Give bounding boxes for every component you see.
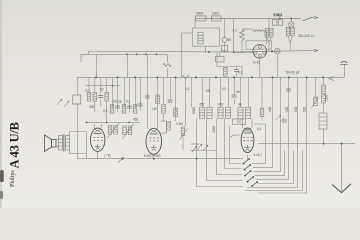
- svg-text:50: 50: [228, 38, 232, 42]
- wire vertical x224.5 top: [224, 19, 226, 53]
- antenna symbol: [340, 61, 347, 64]
- wire lamp leads top right: [290, 18, 292, 21]
- wire vertical x135 drop: [135, 77, 137, 108]
- wire vertical x157 tube2 feed: [157, 77, 159, 128]
- rotary switch wiper 2: [245, 165, 251, 170]
- svg-text:10: 10: [222, 87, 226, 91]
- wire dropper top to bump coil: [242, 28, 253, 30]
- wire transformer bottom lead: [69, 150, 86, 154]
- capacitor box pair on mains line b: [278, 20, 283, 26]
- wire vertical x96: [96, 54, 98, 77]
- wire nested right 3: [254, 77, 281, 171]
- tube V3 anode: [244, 132, 252, 134]
- wire transformer top lead: [69, 132, 86, 136]
- resistor R c: [105, 93, 109, 102]
- tube V1 top cross: [94, 129, 101, 133]
- wire tube2 cathode drop: [153, 154, 155, 159]
- wire vertical x233.7: [233, 19, 235, 53]
- transformer core lines: [62, 134, 65, 152]
- diag arrows right of tube3: [276, 115, 285, 122]
- rotary switch wiper 3: [245, 171, 251, 176]
- tube V1 leads: [94, 124, 101, 128]
- svg-text:( 78): ( 78): [104, 154, 111, 158]
- wire vertical x175.5 drop: [175, 77, 177, 121]
- rectifier pin top: [258, 45, 261, 48]
- trimmer cap pair 1: [108, 126, 112, 135]
- aerial terminal arrow 1: [57, 99, 62, 105]
- wire speaker vertical join: [86, 132, 88, 159]
- gram input arrow 1: [192, 146, 197, 152]
- rectifier pin bottom: [258, 54, 261, 57]
- antenna lead: [344, 65, 346, 78]
- rectifier pin left: [254, 51, 257, 54]
- wire bump coil to rectifier: [264, 32, 267, 45]
- svg-text:E 43: E 43: [254, 61, 261, 65]
- IF coil box 2b: [225, 107, 230, 118]
- wire vertical x163.5 drop: [163, 77, 165, 121]
- wire vertical x89 drop: [88, 77, 90, 92]
- capacitor above tube2: [145, 96, 150, 98]
- capacitor C d: [138, 104, 143, 106]
- wire gram horizontal: [190, 150, 216, 152]
- tube V1 grid2: [93, 140, 103, 142]
- wire vertical x112 drop: [112, 77, 114, 108]
- wire res above bus lead: [224, 67, 226, 78]
- wire vertical x170 drop: [170, 77, 172, 100]
- svg-text:1000: 1000: [212, 12, 219, 16]
- svg-text:220-240 V∼: 220-240 V∼: [298, 34, 316, 38]
- wire nested right 4: [255, 150, 285, 175]
- tube V2 anode: [150, 133, 158, 135]
- earth arrow chevron: [332, 184, 351, 193]
- wire vertical x127: [127, 54, 129, 77]
- svg-text:1W: 1W: [152, 107, 157, 111]
- wire mains lower line: [89, 50, 316, 52]
- svg-text:500: 500: [303, 106, 307, 112]
- svg-text:5000: 5000: [196, 12, 203, 16]
- potentiometer right x315: [314, 97, 318, 106]
- resistor R top1 on mains line: [196, 16, 207, 21]
- electrolytic hatch: [319, 117, 327, 125]
- pilot lamp small circle: [222, 37, 227, 42]
- volume potentiometer: [181, 127, 185, 136]
- capacitor on drop x288.5: [286, 89, 291, 91]
- small trimmer box b: [240, 119, 246, 125]
- wire vertical x167 with osc coil: [167, 54, 169, 77]
- wire heater line B: [81, 53, 167, 55]
- output transformer secondary coil: [66, 136, 70, 151]
- wire vertical x248 IF feed: [248, 77, 250, 107]
- tube V1 heater: [96, 148, 100, 150]
- wire loop rectangle top-centre: [192, 28, 219, 46]
- wire rect top feed: [194, 19, 196, 29]
- left scan edge shadow: [0, 0, 2, 208]
- scale lamp circle top right: [289, 22, 294, 27]
- tube V3 grid: [243, 137, 253, 139]
- wire vertical x238 cap drop: [234, 77, 236, 104]
- tube V1 envelope: [91, 128, 105, 151]
- capacitor C c: [127, 106, 132, 108]
- wire dial lamp drop: [276, 54, 278, 77]
- resistor right of IF boxes: [260, 108, 264, 117]
- aerial input box: [73, 95, 81, 104]
- loudspeaker driver: [52, 140, 57, 148]
- wire nested right 7: [247, 77, 298, 187]
- svg-text:46: 46: [238, 103, 242, 107]
- rectifier pin right: [263, 51, 266, 54]
- resistor R d: [110, 105, 114, 114]
- tube V1 anode: [94, 133, 102, 135]
- wire tube1 cathode drop: [97, 152, 99, 159]
- svg-text:0,1: 0,1: [126, 100, 131, 104]
- dial lamp on mains lower: [275, 48, 281, 54]
- heater box around rectifier: [246, 41, 272, 49]
- tube V2 grid2: [149, 140, 159, 142]
- output transformer primary coil: [59, 136, 63, 151]
- wire nested right 6: [257, 150, 294, 184]
- wire resistor lead: [261, 77, 263, 121]
- wire mains top line: [195, 18, 301, 20]
- resistor above tube2: [156, 95, 160, 104]
- wire secondary rail: [86, 85, 120, 87]
- wire res1 leads: [288, 36, 290, 43]
- wire vertical x140 drop: [140, 77, 142, 110]
- coil inside loop: [198, 33, 203, 44]
- wire nested right 5: [256, 77, 289, 179]
- wire vertical rect to mains lower: [205, 46, 207, 53]
- wire nested right 9: [258, 77, 307, 193]
- tube V1 grid: [93, 137, 103, 139]
- wire heater line B left drop: [81, 51, 89, 62]
- wire nested right 2: [253, 77, 273, 167]
- svg-text:E452T+463: E452T+463: [144, 154, 161, 158]
- cathode line arrow: [118, 158, 124, 163]
- svg-text:Philips: Philips: [10, 170, 16, 187]
- wire tube3 cathode drop: [247, 155, 249, 161]
- small box below mains lower: [216, 57, 225, 63]
- wire vertical x269 upper: [267, 19, 272, 51]
- wire vertical x117.5 drop: [117, 77, 119, 112]
- tube V2 heater: [152, 149, 156, 151]
- svg-text:452: 452: [218, 103, 224, 107]
- capacitor C e: [168, 100, 173, 102]
- IF coil box 3b: [245, 107, 250, 118]
- svg-text:0,1: 0,1: [257, 127, 262, 131]
- wire vertical x94.8 drop: [94, 77, 96, 112]
- wire AVC rail: [87, 121, 141, 123]
- svg-text:5000: 5000: [192, 107, 196, 114]
- wire rectifier cathode drop: [259, 58, 261, 77]
- capacitor box pair on mains line a: [272, 20, 277, 26]
- wire vertical x202 IF feed: [202, 77, 204, 107]
- small trimmer box a: [233, 119, 239, 125]
- bump coil on bus left: [182, 76, 189, 79]
- wire tube3 anode to right: [254, 124, 266, 150]
- dial lamp cross: [275, 49, 279, 53]
- capacitor above bus 2: [234, 70, 239, 72]
- svg-text:452: 452: [199, 103, 205, 107]
- tube V2 grid: [149, 137, 159, 139]
- svg-text:400: 400: [268, 106, 272, 112]
- wire vertical x220.5 IF feed: [220, 77, 222, 107]
- speaker frame box: [56, 140, 59, 147]
- svg-text:0,1: 0,1: [238, 71, 243, 75]
- loudspeaker cone: [45, 135, 52, 152]
- heater bump coil: [253, 30, 264, 32]
- mains plug arrow top: [314, 16, 318, 19]
- mains switch blade: [303, 17, 312, 21]
- wire dropper to mains lower: [241, 44, 243, 53]
- resistor pair left a: [265, 29, 269, 38]
- wire cap above bus leads: [236, 67, 238, 78]
- svg-text:A 43 U/B: A 43 U/B: [8, 122, 22, 168]
- wire mains lower through rectifier: [235, 52, 253, 54]
- capacitor right on drop: [282, 120, 287, 122]
- wire tube3 grid feed: [242, 119, 244, 128]
- tube V3 grid side lead: [231, 135, 240, 137]
- resistor R i: [167, 122, 171, 131]
- capacitor C above bus 1: [217, 53, 242, 78]
- wire right resistor chain drop: [323, 77, 325, 143]
- resistor vertical top right 2: [291, 27, 295, 36]
- resistor R b: [93, 93, 97, 102]
- resistor R a: [87, 93, 91, 102]
- svg-text:0,5: 0,5: [103, 109, 108, 113]
- wire switch drop x196: [197, 119, 244, 187]
- scan blotch left edge: [0, 170, 4, 182]
- rectifier tube E43 top view: [253, 45, 267, 59]
- tube V3 top cross: [244, 128, 251, 132]
- wire cathode line y158: [78, 158, 244, 160]
- wire nested right 1: [252, 150, 266, 163]
- wire vertical x185.5 drop: [185, 77, 187, 126]
- svg-text:500: 500: [294, 106, 298, 112]
- svg-text:25: 25: [118, 100, 122, 104]
- wire loop left route: [182, 33, 193, 77]
- grid cap bracket: [161, 121, 167, 133]
- gram input arrow 2: [191, 143, 199, 145]
- svg-text:50: 50: [237, 90, 241, 94]
- svg-text:7500: 7500: [325, 95, 329, 102]
- wire small box lead: [219, 53, 221, 57]
- svg-text:4 x0,1: 4 x0,1: [254, 153, 263, 157]
- resistor R h: [174, 108, 178, 117]
- trimmer cap pair 1b: [114, 126, 118, 135]
- wire main HT bus: [77, 76, 344, 78]
- wire vertical x106.7 drop: [106, 77, 108, 122]
- capacitor C a: [98, 96, 103, 98]
- tube V3 heater: [246, 149, 250, 151]
- svg-text:25: 25: [206, 89, 210, 93]
- svg-text:2 x0,1: 2 x0,1: [274, 13, 283, 17]
- IF coil box 1a: [199, 107, 204, 118]
- resistor R e: [122, 105, 126, 114]
- rotary switch wiper 1: [244, 159, 250, 164]
- potentiometer wiper arrow: [180, 129, 188, 141]
- tube V2 envelope: [146, 128, 162, 154]
- wire vertical x147 tube2 feed: [147, 77, 149, 128]
- svg-text:350: 350: [285, 106, 289, 112]
- wire vertical x209.5 IF feed: [209, 77, 211, 107]
- wire vertical x191 drop: [191, 77, 193, 107]
- small box under pilot: [222, 46, 228, 52]
- osc coil squiggle: [163, 64, 171, 67]
- resistor chain right 7500: [322, 85, 326, 94]
- mains plug arrow lower: [314, 49, 318, 52]
- svg-text:2000: 2000: [212, 126, 216, 133]
- capacitor C 50pF: [232, 95, 237, 97]
- resistor vertical top right 1: [286, 27, 290, 36]
- wire vertical x147: [147, 54, 149, 77]
- svg-text:50+50 µF: 50+50 µF: [286, 71, 300, 75]
- tube V3 envelope: [241, 128, 254, 153]
- title text Philips: [10, 170, 16, 187]
- rotary switch wiper 5: [252, 182, 257, 186]
- trimmer arrow 1: [108, 123, 120, 138]
- junction dots on buses: [86, 18, 343, 160]
- resistor pair left b: [270, 29, 274, 38]
- svg-text:300: 300: [89, 105, 95, 109]
- wire right horizontal to earth: [258, 143, 355, 145]
- rotary switch wiper 4: [248, 177, 254, 182]
- wire switch drop x216: [217, 119, 243, 175]
- scan blotch left edge 2: [0, 191, 3, 199]
- wire switch drop x224.5: [225, 119, 242, 169]
- trimmer arrow 2: [122, 124, 134, 139]
- svg-text:0,5M: 0,5M: [176, 122, 183, 126]
- tube V3 grid2: [243, 140, 253, 142]
- trimmer cap pair 2: [123, 126, 127, 135]
- svg-text:0,1: 0,1: [233, 29, 238, 33]
- svg-text:0,1: 0,1: [86, 89, 91, 93]
- wire right top x315 stub: [315, 77, 317, 98]
- wire vertical x228 IF feed: [228, 77, 230, 107]
- aerial terminal arrow 2: [64, 101, 69, 107]
- IF coil box 3a: [238, 107, 243, 118]
- wire tube3 anode feed: [251, 119, 253, 128]
- tube V2 cathode: [151, 145, 157, 148]
- wire vertical aerial input drop: [77, 77, 79, 158]
- bus end arrow: [329, 77, 334, 81]
- resistor R f: [133, 105, 137, 114]
- resistor chain right second: [322, 94, 326, 103]
- wire vertical x100.8 cap drop: [100, 77, 102, 106]
- tube V2 top cross: [150, 129, 157, 133]
- diode arrow symbol 1: [197, 144, 202, 150]
- wire res2 leads: [290, 36, 292, 51]
- IF coil box 1b: [207, 107, 212, 118]
- title text A 43 U/B: [8, 122, 22, 168]
- tube V3 cathode: [245, 145, 251, 148]
- heater dropper zigzag coil: [240, 29, 245, 44]
- wire vertical x129.5 drop: [129, 77, 131, 112]
- switch contact dots: [243, 158, 259, 187]
- wire vertical x124 drop: [124, 77, 126, 108]
- capacitor C b: [115, 106, 120, 108]
- wire vertical x240.5 IF feed: [240, 77, 242, 107]
- wire pot bottom lead: [182, 136, 184, 150]
- svg-text:452: 452: [133, 118, 139, 122]
- wire switch drop x229.5: [230, 126, 242, 164]
- electrolytic right box: [319, 113, 327, 129]
- wire switch drop x206: [207, 119, 243, 181]
- potentiometer arrow right: [312, 97, 319, 109]
- wire earth drop: [341, 144, 343, 191]
- wire mains top right segment: [312, 17, 315, 19]
- resistor R g: [162, 105, 166, 114]
- trimmer cap pair 2b: [128, 126, 132, 135]
- svg-text:50: 50: [100, 88, 104, 92]
- svg-text:0,1: 0,1: [185, 87, 190, 91]
- wire nested right 8: [245, 150, 303, 191]
- resistor above bus: [224, 68, 228, 77]
- scale lamp cross: [289, 23, 293, 27]
- diode arrow symbol 2: [203, 145, 208, 151]
- svg-text:1M: 1M: [113, 100, 118, 104]
- resistor R top2 on mains line: [212, 16, 222, 21]
- tube V1 cathode: [95, 144, 101, 147]
- IF coil box 2a: [218, 107, 223, 118]
